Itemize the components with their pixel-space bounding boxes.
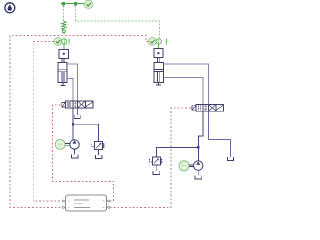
tank T3: [71, 155, 78, 158]
sensor link right: [158, 44, 160, 48]
shaft M2-P2: [189, 165, 194, 167]
signal wire controller output 1 to valve V1 solenoid: [52, 105, 113, 201]
mechanical link to right unit (dashed): [76, 6, 160, 39]
valve V2 4/3 proportional: [192, 104, 223, 111]
signal wire PS2 to controller input 2: [10, 36, 148, 208]
motor M2: [179, 161, 189, 171]
signal wire controller output 2 to valve V2 solenoid: [110, 108, 192, 207]
pump P2: [194, 161, 203, 170]
controller U1: [63, 195, 110, 211]
load mass W2: [154, 48, 163, 57]
tank T4 under RV2: [153, 171, 160, 174]
marker flag right: [166, 38, 167, 45]
pressure line P1: [72, 108, 74, 140]
junction J1: [72, 123, 74, 125]
roller node: [62, 30, 65, 33]
spring S1: [62, 21, 66, 30]
tank line T5 (valve V2 to far tank): [209, 111, 231, 157]
mechanical link (dashed): [63, 33, 65, 38]
relief valve RV1: [92, 142, 104, 156]
cylinder C2: [154, 62, 164, 85]
line J1 to relief valve RV1: [73, 124, 99, 141]
status badge B1: [84, 0, 92, 8]
load mass W1: [59, 49, 69, 58]
cylinder C1: [58, 62, 67, 85]
relief valve RV2: [150, 157, 162, 171]
motor M1: [55, 139, 65, 149]
fixed support rail: [61, 2, 85, 5]
line cylinder C2 top port to valve V2: [164, 64, 209, 104]
pump P1: [70, 140, 79, 149]
tank T6: [195, 175, 202, 178]
position sensor PS2: [156, 38, 161, 44]
suction line P1 to tank T3: [74, 149, 76, 155]
line cylinder C1 bottom port to valve V1: [67, 78, 73, 101]
app icon (hydraulic droplet): [5, 3, 15, 13]
line J2 to relief valve RV2: [156, 147, 198, 157]
position sensor PS1: [61, 38, 66, 44]
marker flag left: [69, 39, 70, 46]
tank T5: [227, 157, 233, 161]
tank T1 under valve V1: [74, 108, 80, 119]
valve V1 4/3 proportional: [62, 101, 93, 108]
shaft M1-P1: [65, 144, 70, 146]
sensor badge B3: [148, 37, 156, 45]
piston rod R2 upper: [157, 58, 159, 63]
mechanical link (dashed): [63, 6, 65, 22]
sensor link: [63, 44, 65, 49]
line cylinder C2 bottom port to valve V2: [164, 78, 203, 105]
junction J2: [197, 146, 199, 148]
pressure line P2 (valve to pump): [198, 111, 203, 160]
piston rod R1 upper: [62, 58, 64, 62]
signal wire PS1 to controller input 1: [33, 42, 62, 202]
suction line P2 to tank T6: [197, 170, 199, 175]
tank T2 under RV1: [95, 155, 102, 158]
line cylinder C1 top port to valve V1: [67, 64, 78, 101]
sensor badge B2: [54, 38, 62, 46]
